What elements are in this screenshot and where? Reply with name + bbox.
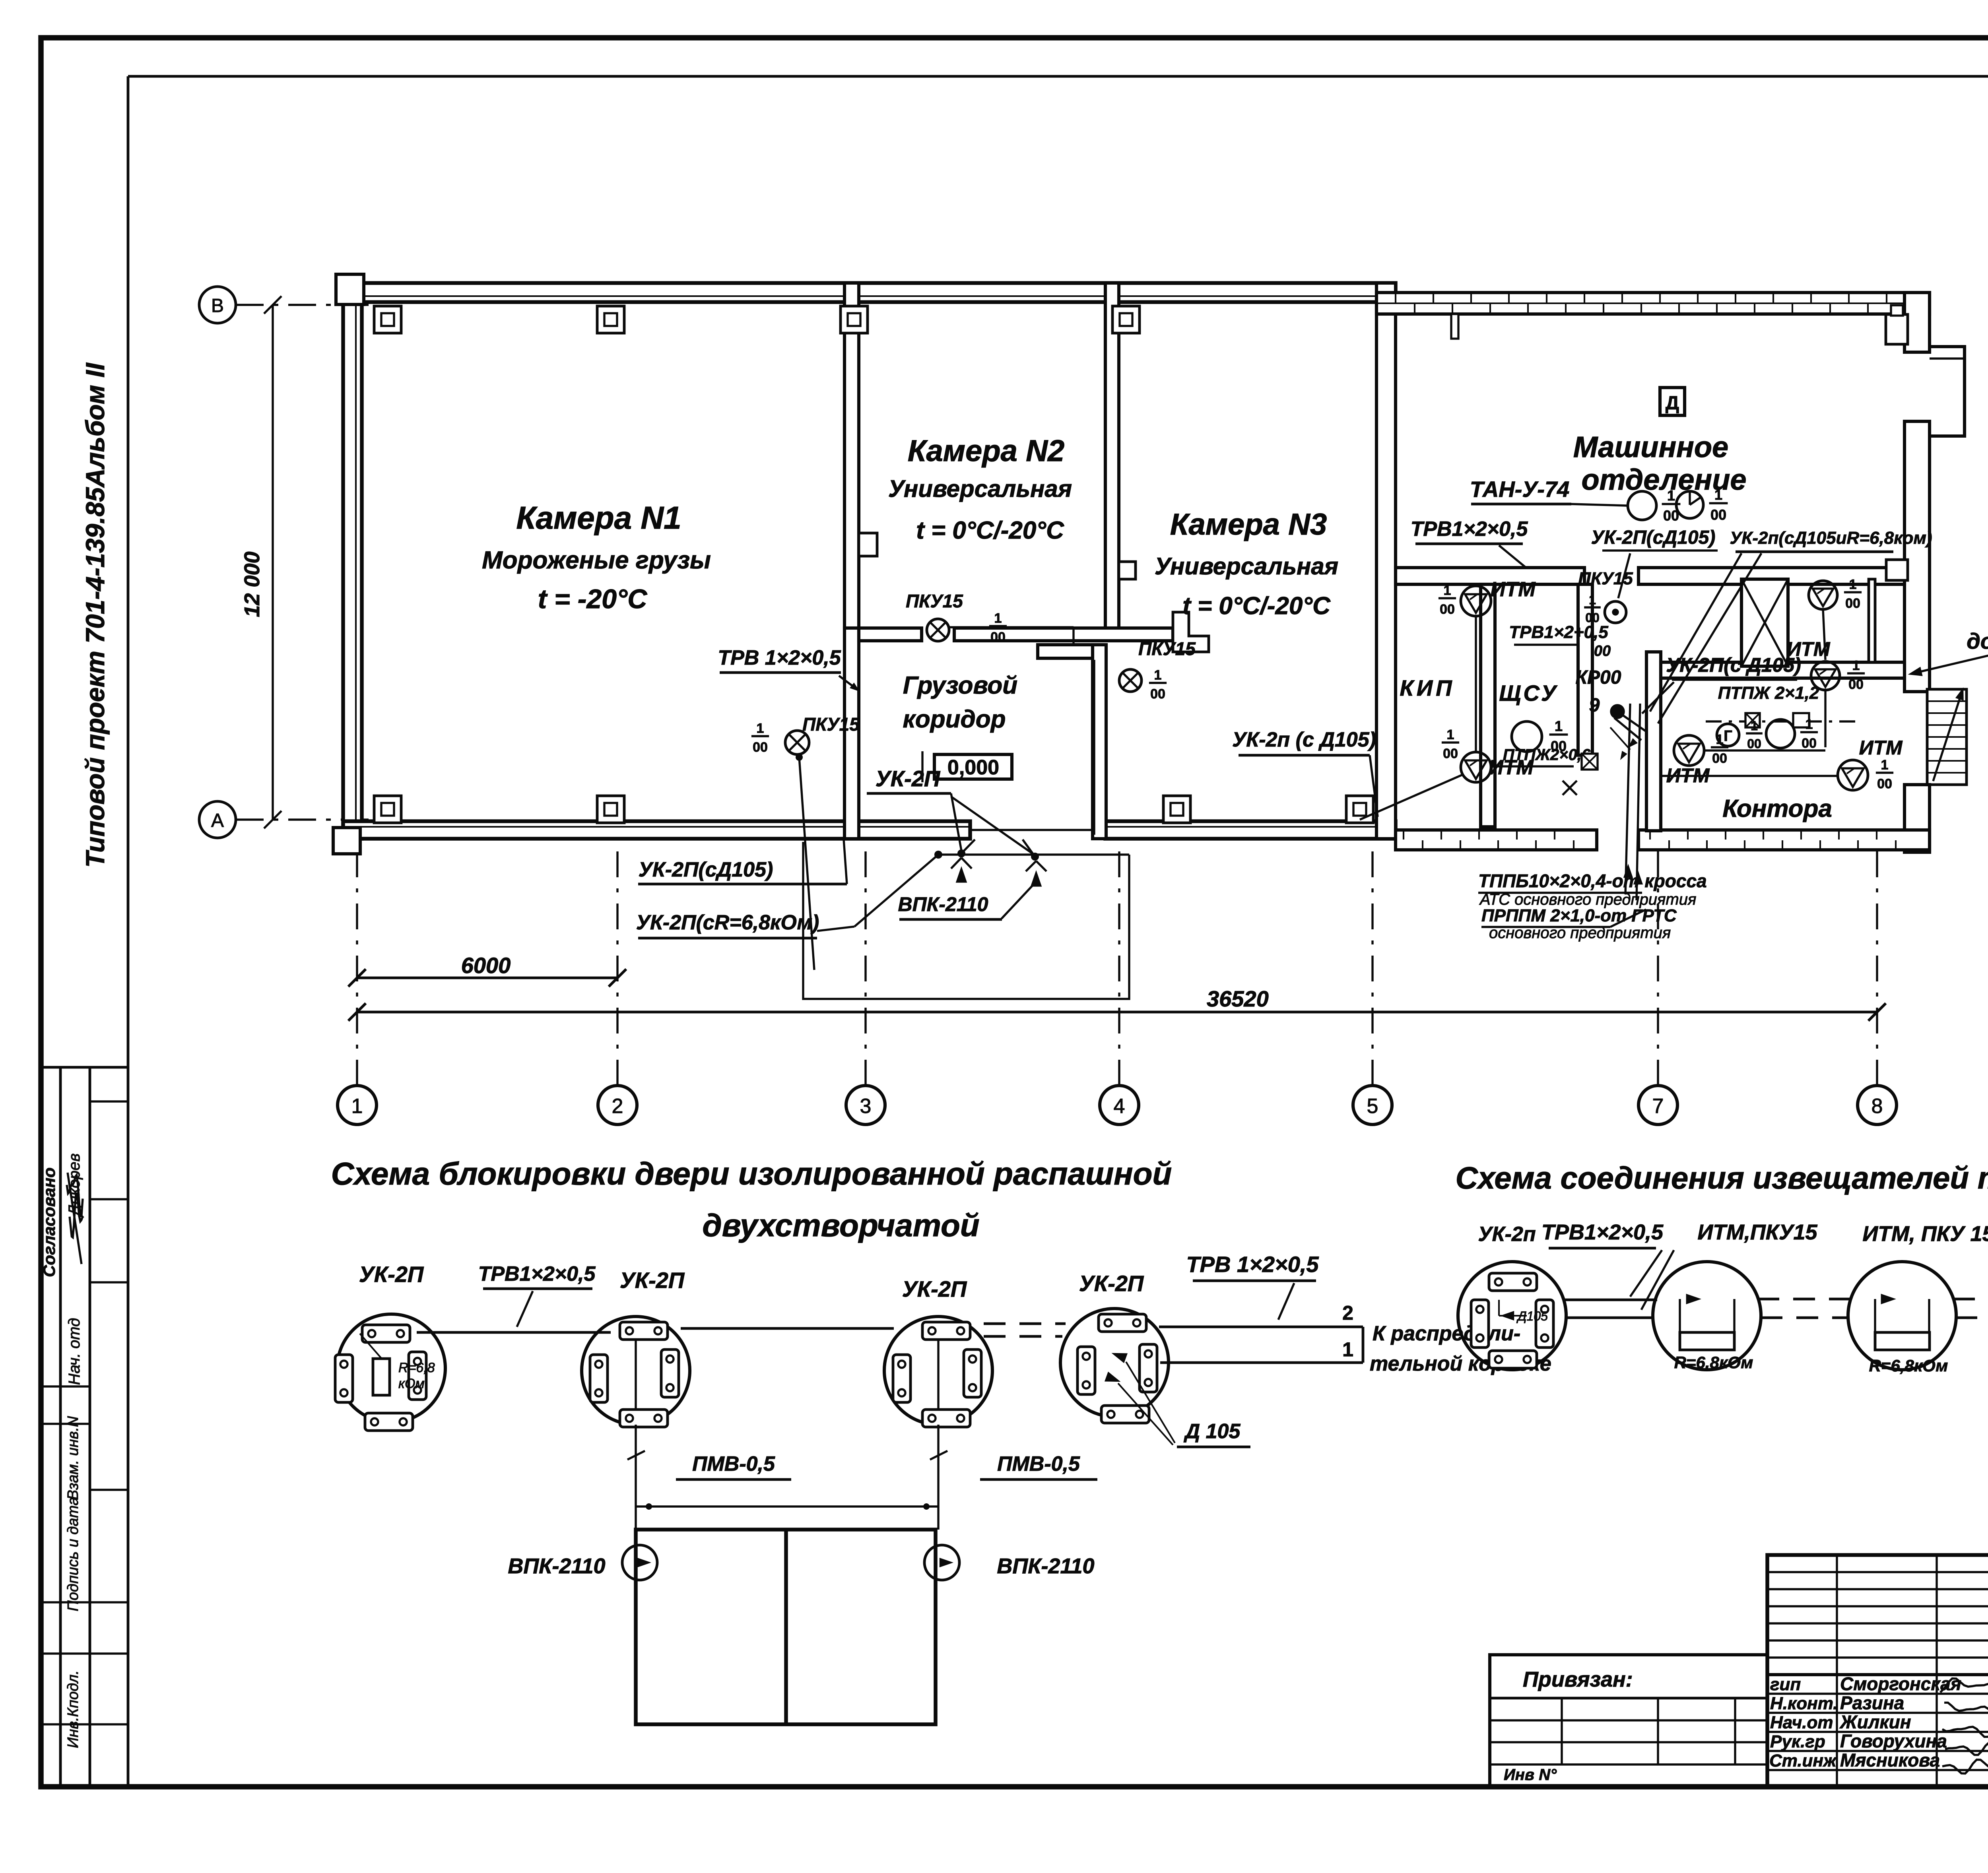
junction dots on wire bbox=[934, 851, 942, 859]
svg-text:R=6,8кОм: R=6,8кОм bbox=[1674, 1353, 1753, 1372]
right entrance porch bbox=[1930, 347, 1965, 436]
wire below door bbox=[938, 853, 1129, 855]
svg-text:Камера N3: Камера N3 bbox=[1170, 508, 1327, 541]
svg-text:УК-2п (с Д105): УК-2п (с Д105) bbox=[1232, 728, 1376, 751]
svg-text:ВПК-2110: ВПК-2110 bbox=[508, 1554, 605, 1578]
machine room right wall upper bbox=[1905, 293, 1930, 352]
cable bundle down from ЩСУ bbox=[1625, 704, 1630, 894]
svg-text:К распредели-: К распредели- bbox=[1373, 1322, 1520, 1345]
ЩСУ circle bbox=[1512, 721, 1542, 752]
svg-text:1: 1 bbox=[1555, 718, 1563, 734]
svg-text:1: 1 bbox=[1444, 583, 1451, 598]
door leaves bbox=[636, 1530, 936, 1724]
svg-text:ПКУ15: ПКУ15 bbox=[1578, 569, 1633, 588]
svg-text:Нач.от: Нач.от bbox=[1770, 1713, 1833, 1732]
svg-text:6000: 6000 bbox=[461, 953, 511, 978]
svg-text:1: 1 bbox=[1849, 577, 1857, 592]
bottom exterior wall left segment bbox=[343, 821, 970, 839]
svg-text:1: 1 bbox=[994, 611, 1002, 626]
partition KIP|SCHU bbox=[1481, 584, 1495, 827]
dimension line 36520 bbox=[357, 1011, 1877, 1014]
svg-text:ВПК-2110: ВПК-2110 bbox=[997, 1554, 1094, 1578]
svg-text:кОм: кОм bbox=[398, 1376, 425, 1391]
B c3 internals bbox=[1881, 1294, 1896, 1304]
svg-text:ИТМ, ПКУ 15: ИТМ, ПКУ 15 bbox=[1862, 1222, 1988, 1246]
svg-text:0,000: 0,000 bbox=[947, 756, 999, 779]
svg-text:Мороженые грузы: Мороженые грузы bbox=[482, 547, 711, 574]
svg-text:УК-2П: УК-2П bbox=[876, 766, 941, 791]
svg-text:В: В bbox=[211, 295, 224, 316]
svg-text:УК-2П(с Д105): УК-2П(с Д105) bbox=[1666, 654, 1801, 676]
schema B circles bbox=[1458, 1262, 1566, 1370]
svg-text:1: 1 bbox=[1852, 658, 1860, 673]
svg-text:ВПК-2110: ВПК-2110 bbox=[898, 893, 988, 915]
leaders from top labels bbox=[1618, 553, 1630, 598]
svg-text:Жилкин: Жилкин bbox=[1839, 1712, 1911, 1732]
grid bubble A bbox=[199, 801, 236, 838]
svg-text:КИП: КИП bbox=[1400, 675, 1455, 700]
svg-text:00: 00 bbox=[1848, 677, 1864, 692]
right wall lower bbox=[1905, 785, 1930, 852]
svg-text:ТРВ1×2×0,5: ТРВ1×2×0,5 bbox=[1541, 1220, 1664, 1244]
elevation mark 0,000 bbox=[934, 754, 1012, 779]
svg-text:3: 3 bbox=[860, 1095, 872, 1118]
svg-text:00: 00 bbox=[990, 630, 1006, 645]
svg-text:1: 1 bbox=[1881, 758, 1889, 773]
svg-text:Ст.инж: Ст.инж bbox=[1769, 1751, 1837, 1770]
svg-text:ТРВ 1×2×0,5: ТРВ 1×2×0,5 bbox=[1186, 1252, 1319, 1277]
partition SCHU right bbox=[1578, 584, 1592, 755]
svg-text:Д 105: Д 105 bbox=[1184, 1420, 1241, 1443]
box Д bbox=[1660, 388, 1685, 415]
small block near top wall right bbox=[1886, 314, 1908, 344]
svg-text:00: 00 bbox=[1150, 686, 1165, 702]
svg-text:ТРВ 1×2×0,5: ТРВ 1×2×0,5 bbox=[718, 646, 841, 669]
svg-text:Схема блокировки двери изол: Схема блокировки двери изолированной рас… bbox=[331, 1156, 1172, 1191]
horizontal link line bbox=[636, 1505, 938, 1507]
svg-text:УК-2П(сД105): УК-2П(сД105) bbox=[1591, 527, 1716, 548]
wall K3|machine room bbox=[1376, 283, 1396, 839]
svg-text:ТРВ1×2+0,5: ТРВ1×2+0,5 bbox=[1509, 622, 1608, 642]
svg-text:ПМВ-0,5: ПМВ-0,5 bbox=[997, 1452, 1080, 1476]
svg-text:1: 1 bbox=[1342, 1338, 1353, 1361]
drop wires to door bbox=[635, 1425, 637, 1530]
svg-text:00: 00 bbox=[1710, 506, 1726, 523]
staircase bbox=[1927, 689, 1967, 785]
small room wall right of shaft bbox=[1869, 579, 1875, 662]
svg-text:ЩСУ: ЩСУ bbox=[1499, 681, 1559, 706]
Контора wires bbox=[1661, 775, 1838, 777]
svg-text:1: 1 bbox=[1751, 719, 1758, 733]
signature table rows bbox=[1767, 1693, 1988, 1695]
svg-text:УК-2П: УК-2П bbox=[1079, 1271, 1144, 1296]
left exterior wall bbox=[343, 283, 362, 839]
svg-text:Универсальная: Универсальная bbox=[1155, 553, 1338, 580]
ink cluster at КРОО point bbox=[1611, 705, 1624, 718]
svg-text:1: 1 bbox=[1714, 487, 1722, 503]
machine bottom wall (brick) bbox=[1396, 830, 1597, 850]
svg-text:R=6,8кОм: R=6,8кОм bbox=[1869, 1356, 1948, 1375]
partition Kontora left bbox=[1646, 652, 1661, 831]
svg-text:Взам. инв.N: Взам. инв.N bbox=[65, 1416, 82, 1500]
door arrows bbox=[956, 866, 967, 883]
svg-text:Рук.гр: Рук.гр bbox=[1770, 1732, 1825, 1751]
svg-text:9: 9 bbox=[1589, 695, 1600, 716]
svg-text:4: 4 bbox=[1114, 1095, 1125, 1118]
svg-text:УК-2П: УК-2П bbox=[620, 1268, 685, 1293]
svg-text:ТАН-У-74: ТАН-У-74 bbox=[1470, 477, 1569, 502]
svg-text:Универсальная: Универсальная bbox=[888, 475, 1072, 502]
svg-text:Грузовой: Грузовой bbox=[903, 672, 1017, 699]
corridor right wall bbox=[1093, 645, 1106, 839]
svg-text:УК-2П(сR=6,8кОм): УК-2П(сR=6,8кОм) bbox=[636, 911, 819, 934]
shaft box with X bbox=[1741, 579, 1788, 666]
svg-text:00: 00 bbox=[1712, 751, 1727, 766]
svg-text:2: 2 bbox=[1342, 1302, 1353, 1324]
svg-text:ТРВ1×2×0,5: ТРВ1×2×0,5 bbox=[1411, 518, 1528, 541]
c4 internals bbox=[1099, 1314, 1146, 1332]
svg-text:Разина: Разина bbox=[1840, 1693, 1904, 1713]
machine interior cross wall left bbox=[1396, 568, 1584, 584]
svg-text:1: 1 bbox=[351, 1095, 363, 1118]
svg-text:36520: 36520 bbox=[1207, 986, 1269, 1011]
svg-text:Контора: Контора bbox=[1722, 795, 1832, 822]
corridor top wall right segment bbox=[954, 628, 1173, 641]
leader diagonals bbox=[1630, 1250, 1662, 1297]
svg-text:Сморгонская: Сморгонская bbox=[1840, 1673, 1961, 1694]
svg-text:ПТПЖ 2×1,2: ПТПЖ 2×1,2 bbox=[1718, 683, 1819, 703]
bottom grid bubbles 1-8 bbox=[338, 1086, 377, 1125]
output wires schema A bbox=[1159, 1326, 1363, 1328]
svg-text:А: А bbox=[211, 810, 224, 831]
svg-text:коридор: коридор bbox=[903, 706, 1006, 733]
c1 internals bbox=[362, 1325, 410, 1342]
svg-text:t = 0°C/-20°C: t = 0°C/-20°C bbox=[916, 517, 1064, 544]
corner block bottom-left bbox=[333, 828, 360, 854]
dashed wires c3-c4 bbox=[984, 1322, 1066, 1325]
svg-text:12 000: 12 000 bbox=[240, 551, 264, 617]
wire along corridor bbox=[949, 626, 1074, 628]
svg-text:ИТМ: ИТМ bbox=[1859, 737, 1903, 759]
svg-text:t = 0°C/-20°C: t = 0°C/-20°C bbox=[1182, 592, 1331, 620]
svg-text:УК-2п(сД105иR=6,8ком): УК-2п(сД105иR=6,8ком) bbox=[1730, 528, 1932, 548]
wires c1-c2 bbox=[1563, 1299, 1657, 1301]
corner block top-left bbox=[336, 274, 364, 304]
dimension line 6000 bbox=[357, 977, 617, 979]
bottom exterior wall right segment bbox=[1105, 821, 1396, 839]
svg-text:Д: Д bbox=[1666, 393, 1679, 414]
pilasters along walls bbox=[374, 306, 401, 333]
inner drawing frame bbox=[128, 75, 1988, 78]
Гардероб upper ИТМ bbox=[1809, 581, 1837, 609]
corridor step wall bbox=[1038, 645, 1106, 658]
small pier K2 bbox=[859, 533, 877, 556]
svg-text:УК-2П(сД105): УК-2П(сД105) bbox=[639, 858, 773, 881]
pier near K3 door bbox=[1173, 612, 1209, 652]
ТАН circles bbox=[1628, 491, 1656, 520]
svg-text:00: 00 bbox=[1747, 737, 1761, 751]
svg-text:Г: Г bbox=[1724, 728, 1732, 745]
svg-text:8: 8 bbox=[1872, 1095, 1883, 1118]
B c2 internals bbox=[1686, 1294, 1701, 1304]
svg-text:Машинное: Машинное bbox=[1573, 430, 1728, 463]
small pier K3 left bbox=[1119, 562, 1136, 579]
svg-text:1: 1 bbox=[1154, 668, 1162, 683]
main table top bbox=[1767, 1673, 1988, 1676]
svg-text:Мясникова: Мясникова bbox=[1840, 1750, 1940, 1770]
svg-text:гип: гип bbox=[1770, 1675, 1801, 1694]
svg-text:t = -20°C: t = -20°C bbox=[538, 584, 648, 614]
diagonal wire into КИП bbox=[1360, 775, 1462, 820]
pilaster at cross wall right end bbox=[1886, 560, 1908, 580]
vertical dimension 12000 bbox=[272, 305, 274, 820]
svg-text:ТППБ10×2×0,4-от кросса: ТППБ10×2×0,4-от кросса bbox=[1478, 871, 1707, 891]
leader lines from УК-2П to door bbox=[951, 793, 961, 851]
partition wall K2|K3 bbox=[1105, 283, 1119, 628]
svg-text:Камера N1: Камера N1 bbox=[516, 500, 681, 535]
svg-text:КР00: КР00 bbox=[1576, 667, 1621, 688]
B c1 internals bbox=[1489, 1273, 1537, 1291]
svg-text:Согласовано: Согласовано bbox=[40, 1167, 58, 1277]
machine interior cross wall right bbox=[1639, 568, 1905, 584]
wall stub below top wall bbox=[1451, 314, 1458, 339]
door sill line in bottom wall opening bbox=[970, 829, 1105, 831]
corridor left wall lower bbox=[845, 628, 859, 839]
right wall mid bbox=[1905, 421, 1930, 692]
corridor top wall left segment bbox=[859, 628, 922, 641]
svg-text:ПКУ15: ПКУ15 bbox=[1138, 638, 1196, 659]
svg-text:1: 1 bbox=[757, 721, 764, 736]
svg-text:00: 00 bbox=[1877, 776, 1892, 791]
dashed wires c3-c4 bbox=[1953, 1298, 1988, 1301]
c2 internals bbox=[620, 1322, 668, 1340]
top exterior wall bbox=[346, 283, 1396, 302]
svg-text:00: 00 bbox=[1845, 596, 1860, 611]
schema A junction boxes bbox=[337, 1314, 445, 1422]
svg-text:Камера N2: Камера N2 bbox=[908, 434, 1064, 468]
machine room top wall (brick) bbox=[1376, 293, 1930, 314]
dash line with boxes bbox=[1706, 720, 1861, 722]
svg-text:R=6,8: R=6,8 bbox=[398, 1360, 435, 1375]
svg-text:Нач. отд: Нач. отд bbox=[66, 1318, 83, 1385]
attachment table Привязан bbox=[1490, 1655, 1767, 1787]
svg-text:Инв N°: Инв N° bbox=[1504, 1766, 1557, 1784]
svg-text:1: 1 bbox=[1806, 717, 1813, 732]
svg-text:00: 00 bbox=[1802, 736, 1817, 751]
svg-text:ПТПЖ2×0,6: ПТПЖ2×0,6 bbox=[1503, 746, 1591, 764]
svg-text:Типовой проект 701-4-139.85Ал: Типовой проект 701-4-139.85Альбом II bbox=[80, 363, 110, 868]
svg-text:ПКУ15: ПКУ15 bbox=[906, 591, 963, 611]
svg-text:ПКУ15: ПКУ15 bbox=[802, 714, 860, 735]
svg-text:1: 1 bbox=[1667, 487, 1675, 504]
svg-text:00: 00 bbox=[1440, 602, 1455, 617]
svg-text:Схема соединения извещателей: Схема соединения извещателей типа ИТМ и … bbox=[1456, 1160, 1988, 1195]
c3 internals bbox=[922, 1322, 970, 1340]
svg-text:ИТМ: ИТМ bbox=[1490, 578, 1536, 601]
small revision grid bbox=[1767, 1571, 1988, 1573]
svg-text:Подпись и дата: Подпись и дата bbox=[65, 1497, 82, 1611]
svg-text:Привязан:: Привязан: bbox=[1523, 1667, 1633, 1691]
svg-text:00: 00 bbox=[1443, 746, 1458, 761]
wire between КИП detectors bbox=[1475, 617, 1477, 751]
svg-text:2: 2 bbox=[612, 1095, 623, 1118]
svg-text:00: 00 bbox=[1594, 643, 1611, 659]
svg-text:Говорухина: Говорухина bbox=[1840, 1731, 1947, 1751]
svg-text:ИТМ: ИТМ bbox=[1787, 638, 1831, 660]
axis line A bbox=[236, 818, 374, 820]
leader diagonals to door bbox=[854, 855, 938, 927]
svg-text:5: 5 bbox=[1367, 1095, 1378, 1118]
grid bubble B bbox=[199, 287, 236, 323]
title block outer bbox=[1767, 1555, 1988, 1787]
svg-text:00: 00 bbox=[753, 740, 768, 755]
partition wall K1|K2 bbox=[845, 283, 859, 628]
svg-text:ТРВ1×2×0,5: ТРВ1×2×0,5 bbox=[478, 1262, 596, 1286]
svg-text:ПМВ-0,5: ПМВ-0,5 bbox=[692, 1452, 775, 1476]
signatures scribbles bbox=[1940, 1679, 1988, 1693]
svg-text:УК-2П: УК-2П bbox=[359, 1262, 424, 1287]
dashed wires c2-c3 bbox=[1757, 1298, 1851, 1301]
svg-text:УК-2П: УК-2П bbox=[902, 1276, 967, 1301]
axis line B bbox=[236, 304, 374, 306]
cable detour rectangle bbox=[803, 842, 1129, 999]
svg-text:Н.конт.: Н.конт. bbox=[1770, 1694, 1838, 1713]
svg-text:7: 7 bbox=[1652, 1095, 1664, 1118]
svg-text:ИТМ,ПКУ15: ИТМ,ПКУ15 bbox=[1697, 1220, 1817, 1244]
stamp strip lines bbox=[41, 1066, 128, 1069]
svg-text:двухстворчатой: двухстворчатой bbox=[702, 1208, 979, 1243]
wire down bbox=[1823, 609, 1825, 660]
Kontora top wall bbox=[1661, 662, 1905, 678]
КИП upper ИТМ bbox=[1461, 586, 1491, 616]
ВПК-2110 switches bbox=[622, 1545, 657, 1580]
svg-text:1: 1 bbox=[1589, 593, 1596, 607]
svg-text:1: 1 bbox=[1447, 727, 1454, 743]
signature table columns bbox=[1836, 1675, 1838, 1787]
svg-text:УК-2п: УК-2п bbox=[1478, 1223, 1536, 1246]
svg-text:дом и рабочей одежды: дом и рабочей одежды bbox=[1967, 628, 1988, 653]
КИП lower ИТМ bbox=[1461, 752, 1491, 782]
Контора detectors bbox=[1674, 735, 1704, 766]
svg-text:Инв.Кподл.: Инв.Кподл. bbox=[65, 1670, 82, 1748]
wire bus c1-c2-c3 bbox=[417, 1331, 611, 1334]
svg-text:ПРППМ 2×1,0-от ГРТС: ПРППМ 2×1,0-от ГРТС bbox=[1481, 906, 1677, 925]
